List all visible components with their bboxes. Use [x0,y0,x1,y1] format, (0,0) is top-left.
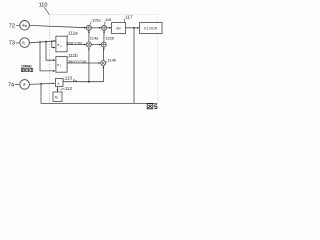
terminal 74 [20,80,30,90]
svg-text:5: 5 [154,104,158,111]
terminal 72 [20,21,30,31]
svg-text:117: 117 [125,14,133,19]
figure caption 図5 [147,104,153,109]
leader 110 [44,7,49,14]
box 113 [56,79,64,87]
wire 114a up to 115a [88,31,90,42]
label 112 [65,86,73,91]
wire 115b up to 116 [103,31,105,42]
node on 73 wire (x=40) [39,41,41,43]
clock generator box [140,23,163,34]
adder 115a [86,25,91,30]
svg-text:fs: fs [55,95,58,99]
node on 73 wire (x=51.8) [51,41,53,43]
svg-text:74: 74 [8,82,14,88]
svg-text:e: e [57,63,59,67]
label 111a [68,30,78,35]
node on output wire [133,27,135,29]
multiplier 114b [101,61,106,66]
adder 116 [102,25,107,30]
wire from 72 to adder 115a [29,25,86,27]
label 74 [8,82,14,88]
connector 113 to 112 [57,87,59,92]
box 117 [112,23,126,34]
svg-text:110: 110 [39,3,48,9]
label 116 [105,17,112,22]
label 114a [90,35,99,40]
wire 111b to multiplier 114b, label 360°CCW [67,62,100,64]
kanji (signal) glyph blocks [21,68,32,71]
svg-text:Fs: Fs [73,78,77,83]
svg-text:116: 116 [105,17,112,22]
label 73 [9,41,15,47]
reference wire 113 to multipliers, label Fs [63,66,103,82]
wire 114a to 115b [91,44,101,46]
wire 114b up to 115b [102,48,104,61]
svg-text:CLOCK: CLOCK [144,26,158,31]
svg-text:111b: 111b [68,53,78,58]
svg-text:10MHz: 10MHz [21,64,32,68]
box 112 [53,92,62,102]
svg-text:e: e [57,43,59,47]
label 113 [65,75,73,80]
svg-text:114a: 114a [90,35,99,40]
box 111a [56,36,67,52]
terminal 73 [20,38,30,48]
wire 111a to multiplier 114a, label 360°CW [67,44,86,46]
label 110 [39,3,48,9]
label 117 [125,14,133,19]
box 111b [56,57,67,73]
label 115b [105,35,114,40]
wire from 74 to 113 [29,83,54,84]
svg-text:115a: 115a [92,17,101,22]
label 10MHz signal [21,64,32,68]
multiplier 114a [86,42,91,47]
svg-text:72: 72 [9,23,15,29]
svg-text:div: div [116,26,121,30]
svg-text:111a: 111a [68,30,78,35]
dashed block border 110 [50,15,118,103]
wire from 73 to box 111a [29,41,55,43]
wire branch to 111b lower input [40,42,55,71]
label 115a [92,17,101,22]
svg-text:114b: 114b [108,58,117,63]
svg-text:Fo: Fo [23,24,27,28]
svg-text:360°CCW: 360°CCW [68,59,87,64]
wire branch to 111a lower input [52,41,55,47]
label 114b [108,58,117,63]
wire 117 to clock box [126,27,140,29]
feedback wire from 74 wire to output line [41,84,157,104]
wire branch to 111b upper input [46,42,55,61]
svg-text:113: 113 [65,75,73,80]
svg-text:73: 73 [9,41,15,47]
svg-text:360°CW: 360°CW [66,40,82,45]
svg-text:112: 112 [65,86,73,91]
label 111b [68,53,78,58]
svg-text:±: ± [57,82,59,86]
svg-text:115b: 115b [105,35,114,40]
adder 115b [101,42,106,47]
svg-text:F: F [24,83,26,87]
wire 115a to 116 [91,27,101,29]
label 72 [9,23,15,29]
wire 116 to 117 [107,27,112,29]
node on 74 wire [40,83,42,85]
node on 73 wire (x=46) [45,41,47,43]
